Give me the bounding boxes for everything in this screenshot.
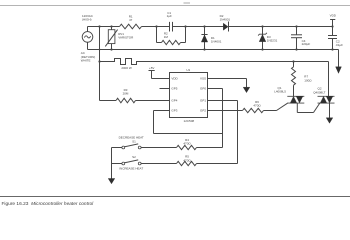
svg-text:+5V: +5V [149,66,154,70]
svg-text:1N5231: 1N5231 [267,38,278,42]
svg-text:U1: U1 [186,68,190,72]
svg-text:INCREASE HEAT: INCREASE HEAT [119,166,143,170]
svg-text:VDD: VDD [171,77,178,81]
svg-text:470Ω: 470Ω [183,142,191,146]
svg-text:GP3: GP3 [171,109,177,113]
svg-text:47: 47 [129,18,133,22]
svg-text:Figure 16.23 Microcontroller: Figure 16.23 Microcontroller heater cont… [2,201,95,207]
svg-text:S1: S1 [132,140,136,144]
svg-text:GP5: GP5 [171,87,177,91]
svg-text:Q4008LT: Q4008LT [313,90,325,94]
svg-text:20M: 20M [123,91,129,95]
svg-text:VARISTOR: VARISTOR [118,36,134,40]
svg-text:2000 W: 2000 W [121,66,132,70]
svg-text:470Ω: 470Ω [183,158,191,162]
svg-text:220µF: 220µF [302,42,311,46]
svg-text:L4008L5: L4008L5 [274,90,286,94]
svg-text:470Ω: 470Ω [253,103,261,107]
svg-text:1N4001: 1N4001 [220,17,231,21]
svg-text:(HIGH): (HIGH) [82,17,92,21]
svg-text:GP2: GP2 [200,109,206,113]
svg-text:VSS: VSS [200,77,206,81]
svg-text:GP1: GP1 [200,99,206,103]
svg-text:1µF: 1µF [167,14,172,18]
svg-text:1M: 1M [164,35,169,39]
svg-text:WHITE: WHITE [81,59,91,63]
svg-text:VDD: VDD [330,14,337,18]
svg-text:1N4001: 1N4001 [211,39,222,43]
svg-text:.01µF: .01µF [335,43,343,47]
svg-text:12C508: 12C508 [184,119,195,123]
svg-text:S2: S2 [132,155,136,159]
svg-text:GP0: GP0 [200,87,206,91]
svg-text:GP4: GP4 [171,99,177,103]
svg-text:100Ω: 100Ω [304,79,312,83]
